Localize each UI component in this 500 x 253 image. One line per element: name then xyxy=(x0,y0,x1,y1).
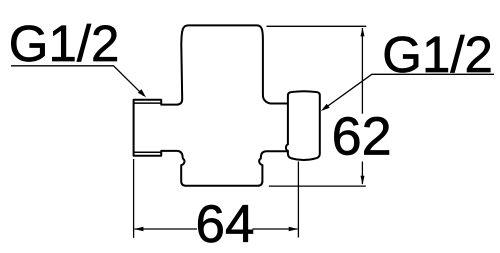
thread inner line top (G1/2 crest) xyxy=(134,102,160,104)
dim 62 bottom extension line xyxy=(269,185,366,187)
arrowhead leader right xyxy=(321,104,330,111)
thread inner line bottom (G1/2 crest) xyxy=(134,151,160,153)
dim 62 arrow up xyxy=(361,27,365,36)
valve body outline xyxy=(134,25,288,185)
side outlet cylinder xyxy=(286,91,320,160)
dim 62 line lower segment xyxy=(361,162,363,185)
svg-text:G1/2: G1/2 xyxy=(9,15,120,72)
arrowhead leader left xyxy=(138,89,146,97)
dim 62 line upper segment xyxy=(361,28,363,114)
leader line G1/2 right xyxy=(324,74,494,108)
dim 64 line left segment xyxy=(135,228,198,230)
svg-text:64: 64 xyxy=(196,195,255,253)
dim 64 right extension line xyxy=(297,162,299,238)
dim 64 arrow right xyxy=(289,227,298,231)
svg-text:G1/2: G1/2 xyxy=(382,26,493,83)
dim 62 arrow down xyxy=(361,176,365,185)
dim 64 left extension line xyxy=(133,159,135,238)
dim 64 arrow left xyxy=(134,227,143,231)
svg-text:62: 62 xyxy=(332,107,392,167)
dim 64 line right segment xyxy=(253,228,298,230)
leader line G1/2 left xyxy=(11,66,144,96)
dim 62 top extension line xyxy=(267,25,367,27)
